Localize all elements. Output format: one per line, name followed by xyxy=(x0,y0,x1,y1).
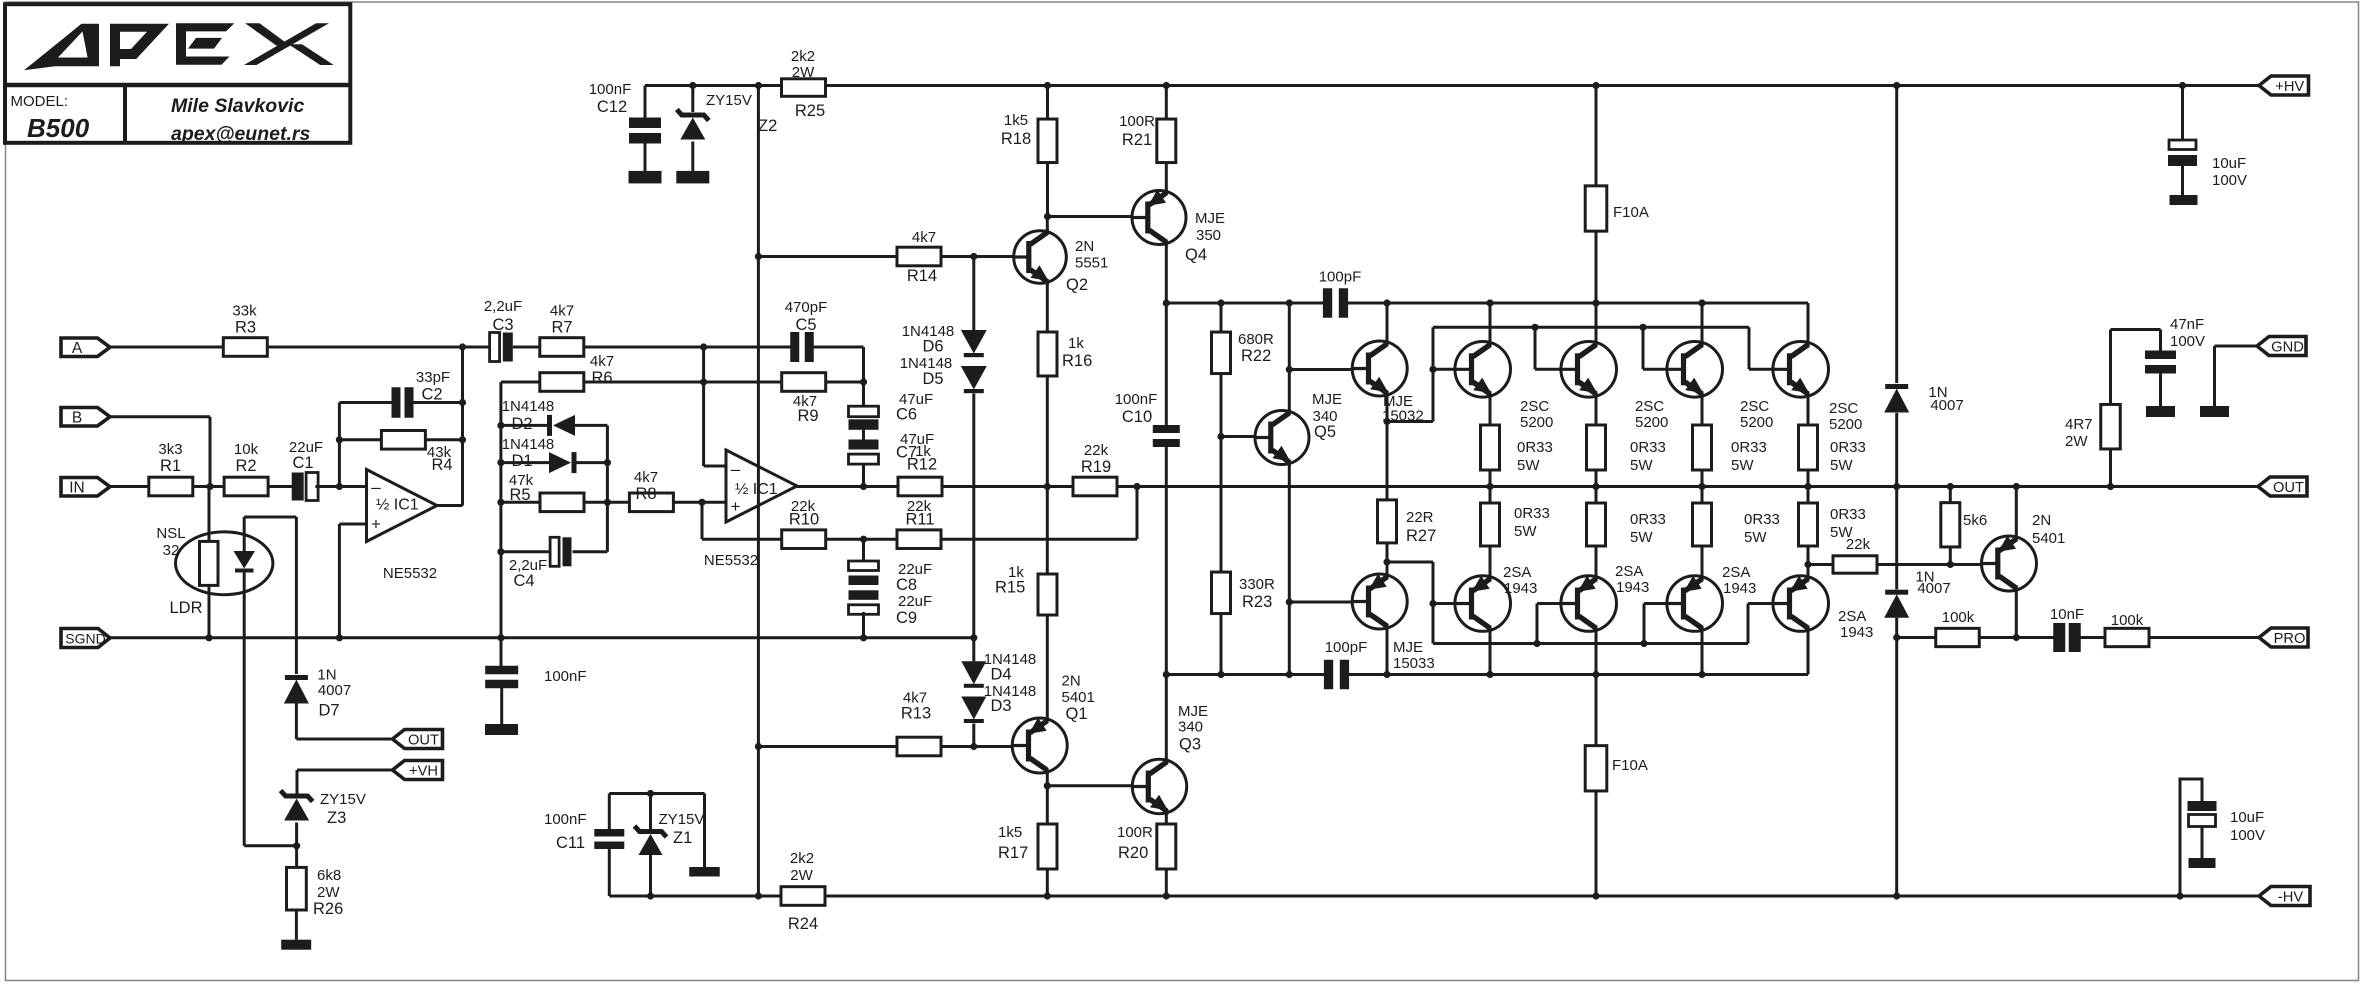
svg-text:22uF: 22uF xyxy=(898,593,932,610)
svg-text:R13: R13 xyxy=(901,705,931,723)
wire xyxy=(208,585,211,637)
junction xyxy=(860,483,867,490)
wire xyxy=(501,501,540,504)
wire xyxy=(703,794,706,868)
svg-text:32: 32 xyxy=(163,542,180,559)
transistor output transistor 2SC5200 #2 xyxy=(1561,341,1668,431)
svg-text:R14: R14 xyxy=(907,267,937,285)
svg-text:ZY15V: ZY15V xyxy=(706,92,752,109)
svg-text:R2: R2 xyxy=(235,457,256,475)
wire xyxy=(862,347,865,407)
resistor emitter resistor 0R33 5W (lower #4) xyxy=(1799,503,1866,546)
wire xyxy=(110,346,223,349)
wire xyxy=(1048,215,1133,218)
svg-text:C4: C4 xyxy=(513,572,534,590)
wire xyxy=(413,401,462,404)
svg-text:33pF: 33pF xyxy=(416,369,450,386)
svg-text:22k: 22k xyxy=(1846,536,1871,553)
terminal -HV xyxy=(2259,887,2310,906)
op-amp IC1b input polarity marks xyxy=(731,460,741,517)
svg-text:D1: D1 xyxy=(511,452,532,470)
junction xyxy=(1698,483,1705,490)
wire xyxy=(1489,470,1492,487)
wire xyxy=(757,86,760,897)
svg-text:R1: R1 xyxy=(160,457,181,475)
junction xyxy=(459,399,466,406)
svg-text:5200: 5200 xyxy=(1520,414,1553,431)
ground xyxy=(485,724,518,735)
svg-text:R4: R4 xyxy=(431,456,452,474)
svg-text:LDR: LDR xyxy=(169,599,202,617)
svg-text:470pF: 470pF xyxy=(785,299,828,316)
capacitor C2 33pF xyxy=(392,369,451,418)
resistor R 4R7 2W xyxy=(2065,404,2120,450)
wire xyxy=(1748,602,1773,605)
resistor R24 xyxy=(781,850,825,933)
junction xyxy=(1893,483,1900,490)
svg-text:2N: 2N xyxy=(1062,673,1081,690)
svg-text:GND: GND xyxy=(2271,339,2304,355)
wire xyxy=(1537,602,1561,605)
svg-text:R19: R19 xyxy=(1081,458,1111,476)
svg-text:5200: 5200 xyxy=(1635,414,1668,431)
svg-text:100R: 100R xyxy=(1119,113,1155,130)
svg-text:3k3: 3k3 xyxy=(158,441,182,458)
resistor R14 xyxy=(897,229,941,285)
svg-text:+HV: +HV xyxy=(2275,79,2304,95)
resistor emitter resistor 0R33 5W (upper #1) xyxy=(1481,425,1553,474)
terminal OUT xyxy=(393,730,443,749)
svg-text:5200: 5200 xyxy=(1829,416,1862,433)
svg-text:C2: C2 xyxy=(421,386,442,404)
wire xyxy=(1046,773,1049,786)
wire xyxy=(941,255,1014,258)
svg-text:–: – xyxy=(371,478,381,497)
node op-amp IC1b inverting input net xyxy=(700,343,707,350)
svg-text:100V: 100V xyxy=(2212,172,2247,189)
svg-text:C1: C1 xyxy=(292,454,313,472)
junction xyxy=(689,82,696,89)
op-amp IC1b (NE5532) xyxy=(704,450,797,569)
wire xyxy=(1289,601,1353,604)
wire xyxy=(1643,368,1667,371)
resistor R20 xyxy=(1117,824,1176,869)
title block box xyxy=(5,4,350,143)
junction xyxy=(1804,483,1811,490)
wire xyxy=(826,538,897,541)
wire xyxy=(609,895,781,898)
svg-text:-HV: -HV xyxy=(2278,889,2303,905)
svg-text:4007: 4007 xyxy=(318,682,351,699)
wire xyxy=(1536,604,1539,644)
svg-text:5W: 5W xyxy=(1744,529,1767,546)
svg-text:R3: R3 xyxy=(235,319,256,337)
wire xyxy=(1387,420,1433,423)
ground (47nF) xyxy=(2146,406,2175,417)
svg-text:5200: 5200 xyxy=(1740,414,1773,431)
wire xyxy=(704,465,726,468)
wire xyxy=(1117,485,2258,488)
wire xyxy=(1220,374,1223,573)
resistor R8 xyxy=(629,469,673,512)
svg-text:6k8: 6k8 xyxy=(317,867,341,884)
svg-text:1k: 1k xyxy=(1068,335,1084,352)
wire xyxy=(972,257,975,331)
junction xyxy=(1286,299,1293,306)
junction xyxy=(1698,671,1705,678)
svg-text:½ IC1: ½ IC1 xyxy=(735,481,778,498)
wire xyxy=(297,769,393,772)
junction xyxy=(1893,892,1900,899)
wire xyxy=(1386,396,1389,422)
svg-text:100nF: 100nF xyxy=(544,811,587,828)
wire xyxy=(606,425,609,551)
resistor R6 xyxy=(540,353,614,391)
svg-text:350: 350 xyxy=(1196,227,1221,244)
wire xyxy=(295,823,298,868)
junction xyxy=(1947,561,1954,568)
svg-text:4k7: 4k7 xyxy=(550,303,574,320)
wire xyxy=(1595,470,1598,487)
wire xyxy=(1221,435,1255,438)
wire xyxy=(1433,602,1455,605)
wire xyxy=(110,636,974,639)
wire xyxy=(2181,86,2184,141)
wire xyxy=(425,438,462,441)
junction xyxy=(2013,483,2020,490)
wire xyxy=(1165,814,1168,824)
svg-text:C3: C3 xyxy=(492,316,513,334)
resistor R9 xyxy=(782,373,826,425)
junction xyxy=(497,499,504,506)
wire xyxy=(1046,163,1049,217)
svg-text:2N: 2N xyxy=(2032,512,2051,529)
capacitor C10 100nF xyxy=(1115,391,1180,447)
svg-text:NE5532: NE5532 xyxy=(704,552,758,569)
wire xyxy=(461,347,464,506)
svg-text:C10: C10 xyxy=(1122,408,1152,426)
terminal SGND xyxy=(61,629,110,648)
junction xyxy=(755,253,762,260)
wire xyxy=(339,401,391,404)
resistor emitter resistor 0R33 5W (upper #2) xyxy=(1587,425,1666,474)
wire xyxy=(608,794,611,830)
wire xyxy=(339,523,366,526)
transistor Q 2N5401 (protection) xyxy=(1982,512,2066,592)
svg-text:0R33: 0R33 xyxy=(1517,439,1553,456)
wire xyxy=(1808,563,1833,566)
svg-text:1943: 1943 xyxy=(1504,580,1537,597)
resistor R 22k (sense) xyxy=(1833,536,1877,573)
wire xyxy=(584,501,629,504)
wire xyxy=(1534,327,1537,369)
svg-text:R20: R20 xyxy=(1118,844,1148,862)
svg-text:R21: R21 xyxy=(1122,131,1152,149)
svg-text:2W: 2W xyxy=(792,64,815,81)
wire xyxy=(1165,869,1168,896)
junction xyxy=(1486,671,1493,678)
wire xyxy=(1386,303,1389,342)
wire xyxy=(609,792,704,795)
wire xyxy=(1386,422,1389,500)
svg-text:5551: 5551 xyxy=(1075,255,1108,272)
resistor R21 xyxy=(1119,113,1176,163)
wire xyxy=(1489,396,1492,425)
capacitor C 10nF xyxy=(2050,606,2084,652)
diode D4 1N4148 xyxy=(961,651,1036,688)
svg-text:+VH: +VH xyxy=(409,763,438,779)
APEX logo xyxy=(24,23,334,70)
wire xyxy=(1644,602,1667,605)
junction xyxy=(497,634,504,641)
capacitor C7 47uF xyxy=(849,431,935,464)
svg-text:Q4: Q4 xyxy=(1185,246,1207,264)
svg-text:B500: B500 xyxy=(27,113,90,143)
wire xyxy=(1595,396,1598,425)
junction xyxy=(1592,483,1599,490)
ground (C12) xyxy=(629,171,662,184)
wire xyxy=(1595,303,1598,342)
junction xyxy=(1044,213,1051,220)
svg-text:MODEL:: MODEL: xyxy=(11,93,69,110)
svg-text:MJE: MJE xyxy=(1178,703,1208,720)
transistor output transistor 2SC5200 #1 xyxy=(1455,341,1553,431)
svg-text:5W: 5W xyxy=(1514,523,1537,540)
wire xyxy=(691,142,694,171)
transistor Q3 MJE340 xyxy=(1132,703,1208,815)
svg-text:0R33: 0R33 xyxy=(1731,439,1767,456)
wire xyxy=(268,346,490,349)
capacitor C 47nF 100V xyxy=(2145,316,2205,374)
svg-text:100pF: 100pF xyxy=(1325,639,1368,656)
wire xyxy=(577,461,608,464)
resistor R4 xyxy=(381,431,452,475)
svg-text:2W: 2W xyxy=(2065,433,2088,450)
svg-text:+: + xyxy=(371,515,381,534)
junction xyxy=(1217,671,1224,678)
wire xyxy=(1432,562,1435,644)
diode D5 1N4148 xyxy=(900,355,987,393)
wire xyxy=(1807,487,1810,504)
junction xyxy=(1383,671,1390,678)
junction xyxy=(497,459,504,466)
svg-text:100k: 100k xyxy=(1942,609,1975,626)
wire xyxy=(244,516,296,519)
svg-text:100k: 100k xyxy=(2111,612,2144,629)
wire xyxy=(1895,86,1898,384)
wire xyxy=(1747,604,1750,644)
svg-text:R23: R23 xyxy=(1242,593,1272,611)
zener diode Z1 ZY15V xyxy=(635,811,705,855)
wire xyxy=(2109,330,2112,405)
wire xyxy=(1980,636,2054,639)
wire xyxy=(437,504,463,507)
transistor output transistor 2SA1943 #1 xyxy=(1455,564,1537,632)
capacitor C3 2,2uF xyxy=(484,298,522,362)
transistor output transistor 2SA1943 #4 xyxy=(1773,576,1873,642)
junction xyxy=(2107,483,2114,490)
wire xyxy=(1046,487,1049,575)
junction xyxy=(1893,634,1900,641)
junction xyxy=(2176,892,2183,899)
resistor R2 xyxy=(224,441,268,496)
wire xyxy=(649,855,652,896)
capacitor 10uF 100V (negative rail) xyxy=(2188,801,2266,844)
svg-text:SGND: SGND xyxy=(65,631,105,647)
svg-text:NE5532: NE5532 xyxy=(383,565,437,582)
wire xyxy=(825,895,2259,898)
junction xyxy=(459,436,466,443)
wire xyxy=(1748,327,1751,369)
zener diode Z2 ZY15V xyxy=(677,92,777,140)
wire xyxy=(1165,163,1168,191)
resistor R5 xyxy=(509,472,584,512)
transistor Q2 2N5551 xyxy=(1014,229,1109,294)
capacitor C8 22uF xyxy=(849,561,933,594)
wire xyxy=(501,381,540,384)
resistor R15 xyxy=(995,564,1057,615)
terminal PRO xyxy=(2259,628,2308,647)
wire xyxy=(1165,245,1168,304)
junction xyxy=(1286,598,1293,605)
terminal A xyxy=(61,338,110,357)
wire xyxy=(701,502,704,539)
svg-text:1k5: 1k5 xyxy=(1004,112,1028,129)
svg-text:0R33: 0R33 xyxy=(1630,439,1666,456)
svg-text:340: 340 xyxy=(1178,719,1203,736)
wire xyxy=(1701,470,1704,487)
wire xyxy=(1166,673,1324,676)
wire xyxy=(645,84,782,87)
svg-text:10uF: 10uF xyxy=(2212,155,2246,172)
wire xyxy=(296,770,299,794)
svg-text:Q2: Q2 xyxy=(1066,276,1088,294)
svg-text:R18: R18 xyxy=(1001,130,1031,148)
wire xyxy=(1895,618,1898,896)
svg-text:OUT: OUT xyxy=(2273,480,2304,496)
resistor fuse F10A (negative rail) xyxy=(1585,746,1648,791)
wire xyxy=(862,465,865,487)
junction xyxy=(336,436,343,443)
svg-text:4k7: 4k7 xyxy=(634,469,658,486)
svg-text:C9: C9 xyxy=(896,609,917,627)
junction xyxy=(1639,324,1646,331)
junction xyxy=(2013,634,2020,641)
wire xyxy=(1807,546,1810,577)
svg-text:1N4148: 1N4148 xyxy=(502,436,555,453)
wire xyxy=(972,724,975,747)
wire xyxy=(584,381,783,384)
wire xyxy=(674,501,727,504)
wire xyxy=(826,381,864,384)
wire xyxy=(110,485,149,488)
transistor output transistor 2SC5200 #3 xyxy=(1667,341,1773,431)
svg-text:Q5: Q5 xyxy=(1314,423,1336,441)
wire xyxy=(1535,368,1561,371)
wire xyxy=(1807,631,1810,675)
wire xyxy=(295,517,298,674)
svg-text:R24: R24 xyxy=(788,915,818,933)
wire xyxy=(295,910,298,940)
svg-text:R6: R6 xyxy=(591,369,612,387)
wire xyxy=(1949,547,1952,565)
svg-text:MJE: MJE xyxy=(1195,210,1225,227)
svg-text:100nF: 100nF xyxy=(1115,391,1158,408)
svg-text:4007: 4007 xyxy=(1930,397,1963,414)
svg-text:100V: 100V xyxy=(2230,827,2265,844)
capacitor C 100pF (upper) xyxy=(1319,269,1362,318)
wire xyxy=(1807,470,1810,487)
wire xyxy=(1595,631,1598,675)
svg-text:Mile Slavkovic: Mile Slavkovic xyxy=(171,95,304,117)
wire xyxy=(1289,368,1351,371)
svg-text:100pF: 100pF xyxy=(1319,269,1362,286)
transistor Q5 MJE340 xyxy=(1255,391,1342,466)
svg-text:2SC: 2SC xyxy=(1635,398,1664,415)
wire xyxy=(1166,302,1323,305)
wire xyxy=(1595,546,1598,577)
capacitor C6 47uF xyxy=(849,391,934,430)
wire xyxy=(295,703,298,739)
wire xyxy=(1220,303,1223,332)
wire xyxy=(575,424,607,427)
junction xyxy=(1698,299,1705,306)
wire xyxy=(1433,326,1749,329)
svg-text:2SA: 2SA xyxy=(1838,608,1866,625)
svg-text:5W: 5W xyxy=(1630,457,1653,474)
svg-text:4007: 4007 xyxy=(1917,580,1950,597)
capacitor C4 2.2uF xyxy=(509,537,572,590)
junction xyxy=(205,634,212,641)
transistor output transistor 2SC5200 #4 xyxy=(1773,341,1862,433)
junction xyxy=(1486,483,1493,490)
wire xyxy=(1489,303,1492,342)
diode D1 1N4148 xyxy=(502,436,577,473)
resistor emitter resistor 0R33 5W (upper #3) xyxy=(1693,425,1767,474)
junction xyxy=(1163,892,1170,899)
junction xyxy=(1592,299,1599,306)
svg-text:33k: 33k xyxy=(232,303,257,320)
svg-text:10uF: 10uF xyxy=(2230,809,2264,826)
junction xyxy=(497,422,504,429)
wire xyxy=(315,485,366,488)
svg-text:R26: R26 xyxy=(313,900,343,918)
junction xyxy=(336,634,343,641)
wire xyxy=(1432,327,1435,421)
wire xyxy=(267,485,292,488)
junction xyxy=(1592,82,1599,89)
resistor R11 xyxy=(897,498,941,549)
svg-text:R17: R17 xyxy=(998,844,1028,862)
svg-text:2N: 2N xyxy=(1075,238,1094,255)
svg-text:IN: IN xyxy=(69,479,85,496)
wire xyxy=(2015,487,2018,537)
svg-text:D4: D4 xyxy=(990,666,1011,684)
wire xyxy=(1949,487,1952,503)
wire xyxy=(2111,328,2161,331)
wire xyxy=(501,461,549,464)
resistor fuse F10A (positive rail) xyxy=(1585,186,1649,231)
wire xyxy=(862,429,865,440)
junction xyxy=(860,536,867,543)
junction xyxy=(698,499,705,506)
resistor emitter resistor 0R33 5W (lower #3) xyxy=(1693,503,1780,546)
wire xyxy=(573,550,608,553)
wire xyxy=(1046,786,1049,824)
wire xyxy=(813,346,864,349)
wire xyxy=(941,485,1073,488)
junction xyxy=(1893,82,1900,89)
